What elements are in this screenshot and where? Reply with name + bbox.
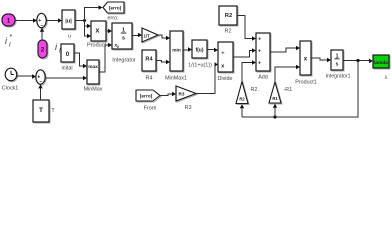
wire From to gain R3 <box>160 94 173 96</box>
svg-text:R2: R2 <box>225 29 232 35</box>
svg-text:R3: R3 <box>179 92 185 97</box>
wire junction down to product inputs <box>85 21 88 27</box>
svg-text:[erro]: [erro] <box>140 94 153 100</box>
wire junction up to goto <box>85 8 99 21</box>
svg-text:Integrator1: Integrator1 <box>325 74 350 80</box>
svg-text:s: s <box>122 36 125 42</box>
svg-text:T: T <box>39 107 43 114</box>
wire R2 down to Add in1 <box>237 16 253 39</box>
wire T up to sum2 <box>40 88 42 101</box>
svg-text:−: − <box>39 79 42 85</box>
svg-text:2: 2 <box>41 47 45 54</box>
svg-text:0: 0 <box>117 45 119 49</box>
feedback wire from junction down and left <box>242 61 358 118</box>
wire Product1 to Integrator1 <box>311 58 328 60</box>
wire inport1 to sum1 <box>15 20 34 22</box>
svg-text:1/T: 1/T <box>144 33 151 38</box>
wire feedback up into gain -R1 <box>274 107 276 117</box>
svg-text:inital: inital <box>61 66 72 72</box>
svg-text:R4: R4 <box>146 76 153 82</box>
junction <box>356 59 359 62</box>
svg-text:Integrator: Integrator <box>112 58 136 64</box>
wire clock to sum2 <box>17 75 33 77</box>
svg-text:max: max <box>88 65 98 70</box>
constant block R2 <box>219 6 238 35</box>
svg-text:*: * <box>10 34 13 41</box>
svg-text:x: x <box>304 56 308 63</box>
svg-text:R2: R2 <box>239 97 245 102</box>
inport 1 <box>2 14 16 27</box>
integrator block (1/s with x0) <box>112 23 136 64</box>
wire min to f(u) <box>183 49 189 51</box>
sum block Sum2 <box>36 70 46 86</box>
gain R2 (up) <box>236 82 259 105</box>
svg-text:+: + <box>258 49 261 55</box>
wire gain -R1 up to Product1 in2 <box>275 67 297 82</box>
svg-text:Product: Product <box>87 43 106 49</box>
wire 1/T to min in1 <box>158 35 167 38</box>
wire Add to Product1 <box>270 48 297 52</box>
product block Product1 <box>295 41 317 86</box>
svg-text:−: − <box>40 23 43 29</box>
wire R4 to min in2 <box>156 61 167 63</box>
svg-text:Divide: Divide <box>218 76 233 82</box>
Fcn block f(u) <box>188 40 212 69</box>
max block MinMax <box>84 60 103 93</box>
gain 1/T <box>142 28 159 43</box>
goto tag [erro] <box>103 2 125 22</box>
wire divide to Add in2 <box>233 51 253 58</box>
min block MinMax1 <box>165 31 187 82</box>
wire product to integrator <box>106 30 109 32</box>
T block <box>33 100 55 123</box>
svg-text:+: + <box>258 37 261 43</box>
svg-text:[erro]: [erro] <box>109 6 122 12</box>
svg-text:Product1: Product1 <box>295 80 317 86</box>
svg-text:u: u <box>68 34 71 40</box>
wire constant 0 to max in1 <box>74 53 84 66</box>
svg-text:R3: R3 <box>184 105 191 111</box>
wire Integrator1 to lamda <box>343 60 370 62</box>
svg-text:From: From <box>144 106 157 112</box>
svg-text:lamda: lamda <box>374 60 388 66</box>
constant block 0 (inital) <box>61 44 75 72</box>
wire max out up to integrator x0 <box>99 45 109 72</box>
svg-text:x: x <box>96 28 100 35</box>
svg-text:R1: R1 <box>272 96 278 101</box>
svg-text:1/(1+u(1)): 1/(1+u(1)) <box>188 63 212 69</box>
clock block Clock1 <box>2 68 18 91</box>
svg-text:1: 1 <box>7 18 11 25</box>
wire feedback up into gain R2 <box>241 108 243 118</box>
svg-text:Add: Add <box>258 75 268 81</box>
svg-text:MinMax: MinMax <box>84 87 103 93</box>
integrator block Integrator1 <box>325 50 350 80</box>
svg-text:min: min <box>172 48 181 54</box>
svg-text:Clock1: Clock1 <box>2 86 18 92</box>
inport 2 <box>38 40 48 59</box>
wire sum2 to max in2 <box>45 77 83 79</box>
svg-text:0: 0 <box>66 51 70 58</box>
svg-text:R2: R2 <box>225 13 232 19</box>
wire inport2 up to sum1 <box>41 31 43 41</box>
svg-text:s: s <box>336 62 339 68</box>
label i_l^* <box>5 34 13 49</box>
From tag [erro] <box>136 90 161 112</box>
gain R3 <box>176 86 197 111</box>
product block Product <box>87 21 107 49</box>
goto block lamda <box>373 55 390 81</box>
svg-text:-R1: -R1 <box>284 87 293 93</box>
wire f(u) to divide in1 <box>207 49 215 51</box>
svg-text:R2.: R2. <box>251 87 259 93</box>
svg-text:erro.: erro. <box>107 16 119 22</box>
junction on feedback <box>273 115 276 118</box>
add block <box>256 33 271 81</box>
wire gain R2 up to Add in3 <box>242 63 253 82</box>
label i_l <box>55 42 61 55</box>
svg-text:+: + <box>258 61 261 67</box>
wire integrator to gain 1/T <box>132 35 139 37</box>
svg-text:MinMax1: MinMax1 <box>165 76 187 82</box>
svg-text:|u|: |u| <box>65 19 72 25</box>
wire abs to junction <box>75 20 85 22</box>
sum block Sum1 <box>37 13 47 28</box>
abs block |u| <box>62 10 76 40</box>
wire sum1 to abs <box>46 20 58 22</box>
svg-text:R4: R4 <box>145 57 153 63</box>
wire R3 up to divide in2 <box>196 65 216 94</box>
gain -R1 (up) <box>269 82 292 104</box>
junction <box>83 19 86 22</box>
constant block R4 <box>142 50 157 82</box>
divide block <box>218 42 234 82</box>
svg-text:f(u): f(u) <box>195 48 203 54</box>
